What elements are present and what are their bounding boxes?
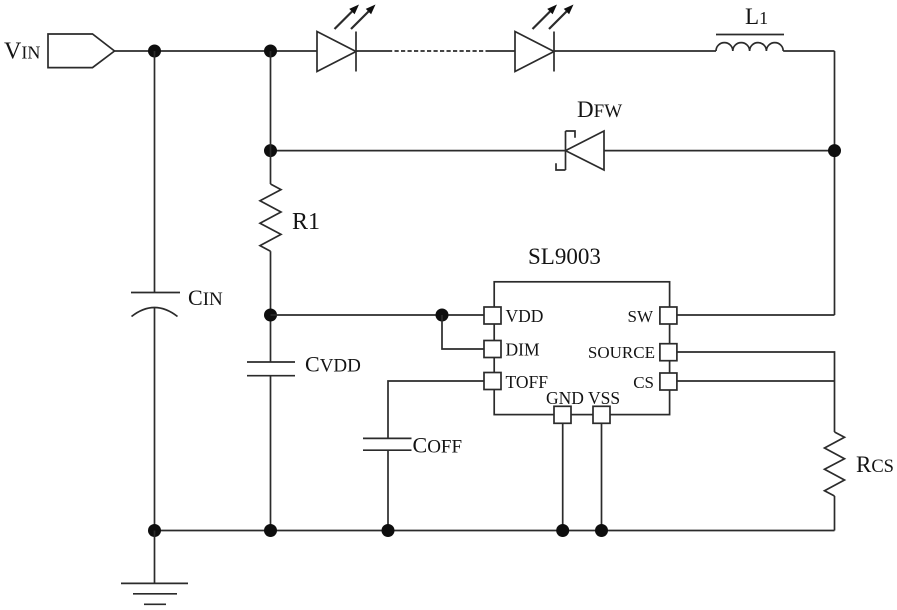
wire right rail down to SW level [834,51,836,315]
label SL9003 [528,244,601,269]
pin label CS [633,373,654,392]
wire DFW row left segment [271,150,566,152]
label RCS [856,452,894,477]
svg-text:TOFF: TOFF [506,372,549,392]
diode DFW (schottky) [556,131,604,170]
wire DFW row right segment [604,150,835,152]
junction dot top-left (CIN tap) [148,45,161,58]
svg-text:RCS: RCS [856,452,894,477]
LED D2 arrows [533,5,574,30]
wire dashes to LED2 [487,50,515,52]
pin label SOURCE [588,343,655,362]
label CIN [188,285,223,310]
label L1 [745,4,768,29]
label COFF [413,433,463,458]
label DFW [577,97,622,122]
pin SW [660,307,677,324]
junction dot bottom COFF [382,524,395,537]
LED D2 [515,32,554,72]
wire CS pin to right rail tee [677,380,835,382]
junction dot bottom CIN [148,524,161,537]
pin GND [554,406,571,423]
resistor R1 [260,184,281,251]
svg-text:L1: L1 [745,4,768,29]
svg-text:CIN: CIN [188,285,223,310]
label CVDD [305,352,361,377]
svg-text:VSS: VSS [588,388,620,408]
pin label DIM [506,340,540,360]
wire LED branch down to R1 [270,51,272,184]
pin label SW [628,307,654,326]
capacitor COFF [363,438,412,530]
pin TOFF [484,373,501,390]
pin label TOFF [506,372,549,392]
inductor L1 [716,35,784,52]
LED D1 arrows [335,5,376,30]
pin VDD [484,307,501,324]
svg-text:R1: R1 [292,209,320,235]
wire R1 to VDD node [270,251,272,362]
label R1 [292,209,320,235]
svg-text:SOURCE: SOURCE [588,343,655,362]
svg-text:DFW: DFW [577,97,622,122]
wire top rail VIN to LED1 [115,50,318,52]
svg-text:CS: CS [633,373,654,392]
resistor RCS [825,432,845,496]
svg-text:COFF: COFF [413,433,463,458]
wire RCS to bottom rail [834,496,836,531]
IC U1 SL9003 body [494,282,669,415]
wire LED2 to L1 [554,50,716,52]
svg-text:VDD: VDD [506,306,544,326]
pin VSS [593,406,610,423]
pin DIM [484,341,501,358]
junction dot bottom GND [556,524,569,537]
wire bottom rail [155,530,835,532]
label VIN [4,39,40,65]
wire SOURCE pin to right then down [677,352,835,432]
junction dot bottom VSS [595,524,608,537]
wire VSS pin down [601,423,603,530]
pin CS [660,373,677,390]
wire VDD node to VDD pin [271,314,485,316]
ground [121,531,188,605]
wire LED1 to dashes [356,50,388,52]
svg-text:SL9003: SL9003 [528,244,601,269]
svg-text:GND: GND [546,388,584,408]
wire SW pin to right rail [677,314,835,316]
junction dot VDD node [264,309,277,322]
wire TOFF branch [388,381,484,438]
junction dot bottom CVDD [264,524,277,537]
svg-text:CVDD: CVDD [305,352,361,377]
svg-text:DIM: DIM [506,340,540,360]
pin SOURCE [660,344,677,361]
terminal VIN [48,34,115,68]
wire GND pin down [562,423,564,530]
capacitor CVDD [247,362,295,531]
wire L1 to right corner [783,50,834,52]
pin label VDD [506,306,544,326]
pin label VSS [588,388,620,408]
capacitor CIN [131,51,180,531]
svg-text:SW: SW [628,307,654,326]
pin label GND [546,388,584,408]
svg-text:VIN: VIN [4,39,40,65]
dashed wire (LED string continuation) [388,50,487,52]
junction dot top (LED branch tap) [264,45,277,58]
LED D1 [317,32,356,72]
junction dot DFW left [264,144,277,157]
junction dot DFW right [828,144,841,157]
wire DIM branch [442,315,484,349]
junction dot DIM tap [436,309,449,322]
